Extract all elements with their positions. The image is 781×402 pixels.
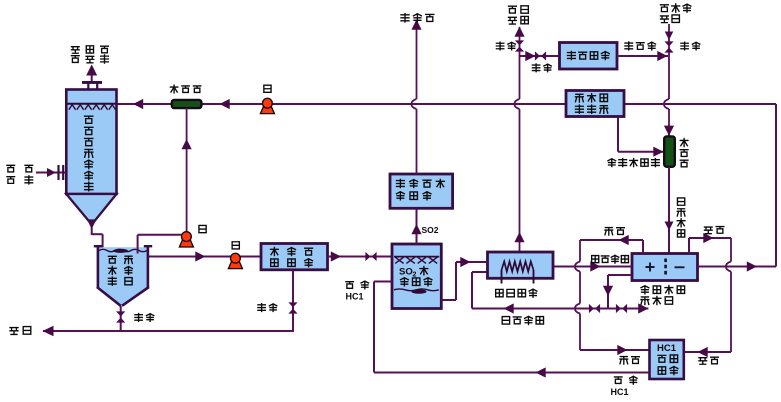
arrow up on P1 riser	[182, 139, 192, 149]
pipe: slag discharge line 排渣	[43, 330, 294, 332]
valve V6 on makeup line	[664, 41, 673, 52]
arrow into mixer M1	[220, 99, 230, 109]
label 阀门 (V2)	[258, 304, 277, 312]
inlet flange ticks	[59, 165, 64, 180]
arrow right end of brine header	[638, 303, 648, 313]
label 气体HC1 (near SO2 unit)	[346, 281, 369, 301]
arrow caustic product right	[747, 261, 757, 271]
arrow steam vent up	[514, 27, 524, 37]
arrow condensate	[657, 51, 667, 61]
valve V1 on purification outlet	[365, 252, 376, 261]
arrow concentrated brine	[590, 261, 600, 271]
label 氯气 (top)	[605, 228, 624, 235]
label 阀门 (V5)	[532, 64, 551, 72]
unit box 冷凝单元	[560, 43, 618, 70]
mixer M2 (vertical inline mixer)	[664, 136, 675, 166]
unit box 电解烧碱储罐	[566, 91, 624, 117]
label 冷凝水	[625, 42, 656, 50]
pump P3 (feed pump)	[228, 253, 242, 268]
arrow into scrubber tower	[133, 99, 143, 109]
arrow after purification unit	[331, 251, 341, 261]
svg-text:SO2: SO2	[422, 225, 439, 235]
pipe: steam vent riser 蒸汽排放	[514, 27, 519, 252]
arrow byproduct up	[411, 20, 421, 30]
desulfurization waste water tank 脱硫废水储槽	[94, 246, 152, 306]
valve V2 on purification drain	[288, 302, 297, 313]
tower internal spray header with nozzles	[68, 104, 116, 110]
unit box 废水净化单元	[261, 244, 328, 270]
label 泵 (P1)	[264, 85, 271, 92]
pipe: mixer M2 outlet to electrolyzer	[668, 167, 670, 254]
label 稀电解液 (vertical)	[677, 198, 685, 237]
label HC1合成单元	[657, 343, 678, 375]
label 处理烟气出口	[71, 46, 108, 63]
arrow caustic into mixer M2	[653, 147, 663, 157]
arrow chlorine into HCl unit	[617, 345, 627, 355]
pipe: purification unit drain	[292, 270, 294, 331]
pipe: hydrogen from electrolyzer 氢气	[684, 238, 731, 352]
label 排渣	[10, 327, 31, 335]
svg-text:SO: SO	[399, 267, 413, 278]
pipe: small caustic stream to mixer M2	[618, 117, 664, 152]
label 阀门 (V4)	[496, 42, 515, 50]
label 阀门 (V6)	[681, 42, 700, 50]
pipe: pump P1 discharge riser to mixer M1	[186, 108, 188, 233]
label 泵 (P3)	[232, 242, 239, 249]
label 混合器 (M2, vertical)	[680, 139, 688, 167]
pipe: dilute brine return riser to concentration unit	[472, 272, 488, 309]
pipe: flue gas inlet	[36, 172, 66, 174]
label 稀盐溶液	[502, 316, 543, 324]
arrow up bottom of steam riser	[514, 232, 524, 242]
label 浓缩单元	[496, 289, 537, 297]
svg-text:HC1: HC1	[346, 292, 364, 302]
mixer M1 (inline static mixer)	[172, 100, 202, 108]
arrow chlorine left	[619, 235, 629, 245]
valve V7	[589, 304, 600, 313]
pipe: treated gas outlet	[91, 66, 93, 81]
arrow SO2 up	[411, 224, 421, 234]
pipe: tank outlet to waste water purification unit	[149, 256, 261, 258]
pipe: makeup water / dilute electrolyte line	[664, 24, 669, 137]
pump P1 (recycle pump on main line)	[260, 98, 274, 113]
label 浓盐溶液	[592, 255, 629, 263]
label 泵 (P2)	[199, 225, 206, 232]
pump P2 (tank transfer pump to mixer riser)	[179, 232, 193, 247]
unit box HC1合成单元	[650, 340, 684, 379]
valve V4 on steam vent	[515, 40, 524, 51]
valve V5 on condenser branch	[535, 51, 546, 60]
label 蒸汽排放	[508, 6, 528, 24]
svg-text:HC1: HC1	[657, 343, 677, 354]
arrow on tank outlet	[195, 251, 205, 261]
pipe: caustic recycle main line to tower (y=104)	[117, 103, 776, 105]
label 气体HC1 (bottom)	[611, 376, 638, 397]
label 少部分烧碱	[608, 159, 659, 167]
pipe: concentrated brine to electrolyzer 浓盐溶液	[553, 266, 632, 268]
label 废水净化单元	[270, 247, 312, 266]
arrow into concentration unit	[460, 257, 470, 267]
arrow into mixer M2 (down)	[664, 126, 674, 136]
arrow HCl gas left	[536, 367, 546, 377]
pipe: tower bottom drain with jog	[92, 221, 103, 254]
pipe: chlorine from electrolyzer 氯气	[575, 240, 650, 350]
arrow hydrogen right	[703, 233, 713, 243]
pipe: purification unit outlet to SO2 unit	[328, 256, 393, 258]
arrow treated gas up	[86, 65, 97, 76]
valve V3 on tank drain	[116, 311, 125, 322]
label SO2	[422, 225, 439, 235]
pipe: byproduct outlet riser	[411, 20, 416, 174]
arrow down on tower drain	[87, 221, 96, 230]
pipe: steam branch to condenser	[520, 55, 560, 57]
label 阀门 (V3)	[135, 314, 154, 322]
label 混合器 (M1)	[170, 85, 200, 93]
arrow down dilute brine	[603, 286, 613, 296]
svg-text:HC1: HC1	[611, 387, 629, 397]
tower label 烟气脱硫洗涤塔 (vertical)	[85, 116, 93, 191]
pipe: SO2 unit outlet to concentration unit	[441, 262, 487, 300]
arrow slag discharge	[43, 326, 54, 337]
pipe: caustic product from electrolyzer to right riser	[698, 266, 777, 268]
label 损耗水补充	[660, 4, 690, 23]
arrow makeup down	[665, 32, 674, 41]
pipe: dilute brine out of electrolyzer	[608, 275, 632, 309]
pipe: HCl gas to SO2 replacement unit 气体HC1	[374, 282, 650, 373]
unit box 副产物生产单元	[390, 174, 453, 208]
pipe: pump P2 suction dip tube	[138, 235, 182, 254]
SO2 replacement unit vessel SO2置换单元	[392, 244, 441, 309]
label 氯气 (bottom)	[620, 357, 639, 364]
arrow flue gas inlet	[47, 168, 56, 177]
arrow hydrogen into HCl unit	[698, 347, 708, 357]
concentration unit 浓缩单元 with heater coil	[488, 252, 554, 284]
arrow on condenser branch	[525, 51, 535, 61]
label + electrode	[646, 263, 655, 272]
pipe: tank drain	[120, 306, 122, 331]
pipe: condensate to makeup line	[617, 55, 668, 57]
label SO2置 换单元	[399, 267, 432, 286]
label 氢气 (bottom)	[699, 357, 718, 364]
label 氢气 (top)	[704, 227, 723, 234]
tower top outlet nozzle	[82, 81, 102, 90]
pipe: right riser from electrolyzer product line	[775, 104, 777, 267]
pipe: dilute brine header with valves	[472, 308, 648, 310]
scrubber tower 烟气脱硫洗涤塔 vessel	[66, 90, 116, 221]
label 冷凝单元	[567, 51, 609, 59]
label − electrode	[675, 266, 685, 268]
pipe: SO2 gas to byproduct unit	[416, 208, 418, 244]
valve V8	[616, 304, 627, 313]
tank label 脱硫废水储槽	[108, 256, 132, 285]
arrow down into electrolyzer	[665, 222, 674, 231]
label 副产物	[401, 14, 434, 22]
arrow dilute brine left 稀盐溶液	[504, 303, 514, 313]
cation membrane electrolyzer 阳离子膜电解槽	[632, 254, 698, 281]
label 阳离子膜电解槽	[641, 286, 685, 305]
label 烟气入口	[7, 165, 33, 184]
label 电解烧碱储罐	[575, 94, 607, 114]
label 副产物生产单元	[396, 179, 444, 199]
